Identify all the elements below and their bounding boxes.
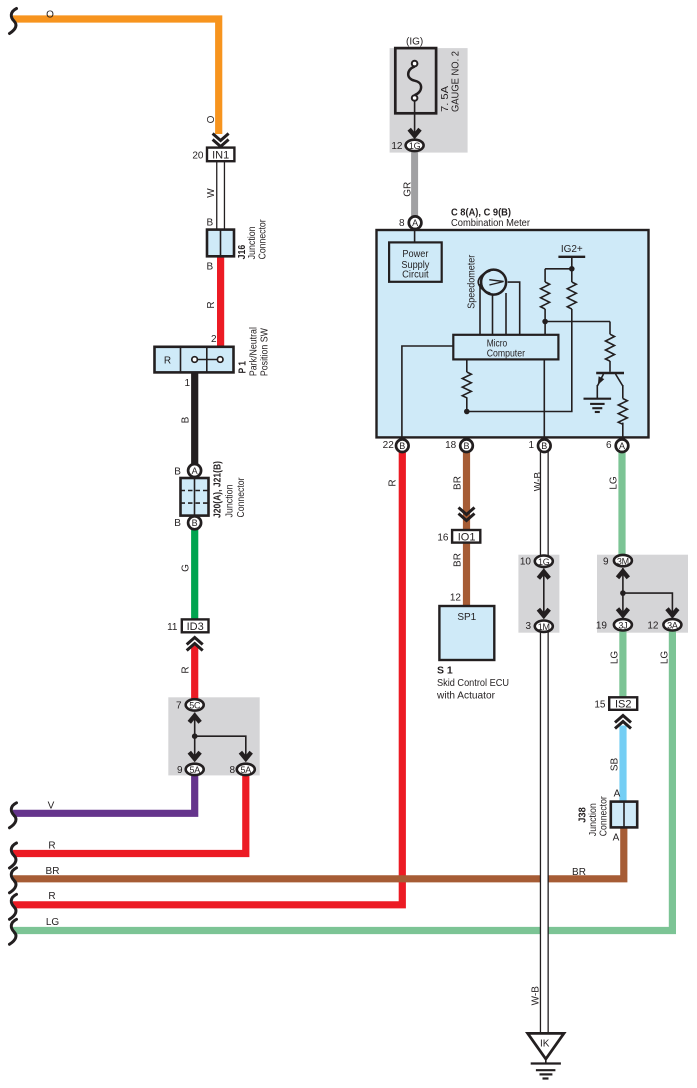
- svg-text:7: 7: [176, 701, 182, 712]
- svg-text:3A: 3A: [667, 621, 678, 631]
- svg-text:1G: 1G: [409, 141, 421, 151]
- svg-text:A: A: [619, 441, 625, 451]
- svg-text:O: O: [206, 115, 217, 123]
- svg-text:2: 2: [211, 334, 217, 345]
- svg-text:B: B: [541, 441, 547, 451]
- svg-text:Connector: Connector: [258, 219, 269, 260]
- svg-text:IO1: IO1: [458, 531, 476, 543]
- svg-text:(IG): (IG): [406, 37, 423, 48]
- svg-text:O: O: [46, 9, 54, 20]
- svg-text:18: 18: [445, 440, 457, 451]
- svg-text:16: 16: [437, 532, 449, 543]
- svg-text:R: R: [181, 666, 192, 673]
- svg-text:3J: 3J: [618, 621, 627, 631]
- svg-text:W: W: [206, 188, 217, 198]
- svg-text:Junction: Junction: [225, 485, 236, 518]
- svg-text:GR: GR: [403, 182, 414, 197]
- svg-text:Combination Meter: Combination Meter: [451, 218, 531, 229]
- svg-text:1M: 1M: [538, 622, 550, 632]
- svg-text:B: B: [192, 518, 198, 528]
- svg-text:B: B: [174, 466, 181, 477]
- svg-text:Power: Power: [402, 249, 429, 260]
- svg-text:IN1: IN1: [212, 149, 229, 161]
- svg-text:Skid Control ECU: Skid Control ECU: [437, 678, 509, 689]
- svg-text:BR: BR: [572, 867, 586, 878]
- svg-text:R: R: [48, 891, 55, 902]
- svg-text:1G: 1G: [538, 557, 550, 567]
- svg-text:Junction: Junction: [588, 803, 599, 836]
- svg-text:R: R: [206, 301, 217, 308]
- svg-text:W-B: W-B: [530, 986, 541, 1006]
- svg-text:1: 1: [528, 440, 534, 451]
- svg-text:B: B: [206, 261, 213, 272]
- svg-text:B: B: [206, 217, 213, 228]
- svg-text:V: V: [48, 801, 55, 812]
- svg-text:B: B: [181, 416, 192, 423]
- svg-text:BR: BR: [46, 866, 60, 877]
- svg-text:11: 11: [167, 622, 178, 633]
- svg-text:9: 9: [177, 765, 183, 776]
- svg-text:W-B: W-B: [533, 472, 544, 492]
- svg-text:3M: 3M: [617, 556, 629, 566]
- svg-text:J20(A), J21(B): J20(A), J21(B): [212, 461, 224, 518]
- svg-text:with Actuator: with Actuator: [436, 690, 496, 701]
- svg-text:C 8(A), C 9(B): C 8(A), C 9(B): [451, 207, 511, 219]
- svg-text:Park/Neutral: Park/Neutral: [249, 327, 260, 376]
- svg-text:22: 22: [383, 440, 395, 451]
- svg-text:Connector: Connector: [236, 477, 247, 518]
- svg-text:3: 3: [525, 621, 531, 632]
- svg-text:R: R: [48, 840, 55, 851]
- svg-text:12: 12: [647, 621, 659, 632]
- svg-text:9: 9: [603, 556, 609, 567]
- svg-text:1: 1: [184, 378, 190, 389]
- svg-text:15: 15: [594, 700, 606, 711]
- svg-text:8: 8: [399, 218, 405, 229]
- svg-text:SB: SB: [610, 758, 621, 772]
- svg-text:IS2: IS2: [615, 699, 632, 711]
- svg-text:Position SW: Position SW: [259, 328, 270, 376]
- svg-text:20: 20: [192, 150, 204, 161]
- svg-text:Circuit: Circuit: [402, 270, 429, 281]
- svg-text:R: R: [388, 479, 399, 486]
- svg-text:Speedometer: Speedometer: [467, 254, 478, 309]
- svg-text:LG: LG: [610, 651, 621, 665]
- svg-text:B: B: [174, 518, 181, 529]
- svg-text:R: R: [164, 356, 171, 367]
- svg-text:12: 12: [450, 592, 462, 603]
- svg-text:B: B: [463, 441, 469, 451]
- svg-text:19: 19: [596, 621, 608, 632]
- svg-text:6: 6: [606, 440, 612, 451]
- svg-text:LG: LG: [609, 476, 620, 490]
- svg-text:J38: J38: [577, 807, 589, 823]
- svg-text:5A: 5A: [189, 765, 200, 775]
- svg-text:G: G: [181, 564, 192, 572]
- svg-text:A: A: [614, 788, 621, 799]
- svg-text:5A: 5A: [241, 765, 252, 775]
- svg-text:LG: LG: [46, 917, 60, 928]
- svg-text:Junction: Junction: [247, 226, 258, 259]
- svg-text:7. 5A: 7. 5A: [440, 86, 451, 112]
- svg-text:IG2+: IG2+: [561, 244, 583, 255]
- svg-text:Computer: Computer: [487, 349, 526, 360]
- svg-text:SP1: SP1: [457, 612, 476, 623]
- svg-text:5C: 5C: [189, 701, 201, 711]
- svg-text:ID3: ID3: [187, 621, 204, 633]
- svg-text:B: B: [399, 441, 405, 451]
- svg-text:8: 8: [229, 765, 235, 776]
- svg-text:S 1: S 1: [437, 665, 453, 677]
- svg-text:A: A: [412, 218, 418, 228]
- svg-text:Connector: Connector: [599, 796, 610, 837]
- svg-text:A: A: [192, 466, 198, 476]
- svg-text:GAUGE NO. 2: GAUGE NO. 2: [451, 51, 462, 112]
- svg-text:12: 12: [391, 141, 403, 152]
- svg-text:BR: BR: [453, 553, 464, 567]
- svg-text:IK: IK: [540, 1038, 550, 1049]
- svg-text:10: 10: [520, 557, 532, 568]
- svg-text:A: A: [613, 833, 620, 844]
- svg-text:BR: BR: [453, 476, 464, 490]
- svg-text:P 1: P 1: [237, 361, 249, 374]
- svg-text:LG: LG: [660, 651, 671, 665]
